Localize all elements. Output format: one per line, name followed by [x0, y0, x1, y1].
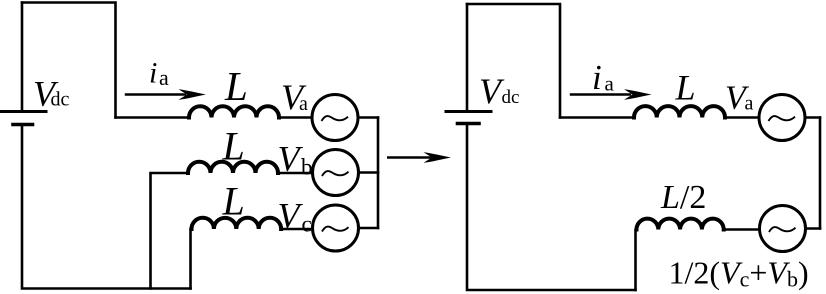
svg-text:L: L: [675, 68, 696, 108]
svg-text:1/2(Vc+Vb): 1/2(Vc+Vb): [669, 255, 809, 292]
svg-text:L: L: [222, 179, 245, 224]
svg-text:a: a: [159, 65, 169, 90]
svg-text:dc: dc: [51, 89, 70, 111]
svg-text:dc: dc: [502, 87, 520, 108]
svg-text:a: a: [605, 72, 615, 96]
svg-text:b: b: [301, 155, 313, 180]
svg-text:c: c: [302, 212, 312, 237]
svg-text:L: L: [222, 124, 245, 169]
svg-text:i: i: [149, 57, 157, 90]
svg-text:a: a: [745, 93, 754, 115]
svg-text:a: a: [299, 93, 308, 115]
svg-text:L: L: [224, 63, 248, 109]
svg-text:L/2: L/2: [660, 179, 706, 216]
svg-text:i: i: [592, 58, 602, 97]
